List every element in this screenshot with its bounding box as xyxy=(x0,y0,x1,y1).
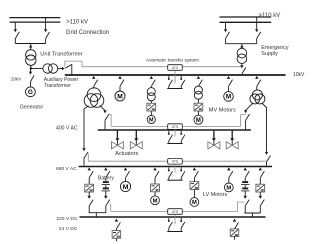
emergency transformer outlet arrow xyxy=(240,64,243,69)
ATS bypass wire left (690V) xyxy=(88,160,167,162)
ATS drop wire 400V xyxy=(174,129,176,136)
label Actuators xyxy=(115,151,138,157)
MV motor M1 xyxy=(115,91,125,101)
svg-text:400 V AC: 400 V AC xyxy=(56,125,78,131)
label Generator xyxy=(20,104,44,110)
switch below battery left xyxy=(104,196,110,213)
svg-text:M: M xyxy=(192,200,197,206)
wire to unit transformer with plug arrow xyxy=(29,44,32,50)
label Automatic transfer system xyxy=(146,57,199,62)
wire U8 stub 24V xyxy=(234,237,236,240)
label Unit Transformer xyxy=(40,51,82,57)
wire aux switch riser to 10kV bus xyxy=(71,64,73,74)
wire T4 right leg down xyxy=(100,106,105,111)
switch LV drive 1 xyxy=(153,167,159,184)
wire unit transformer to node xyxy=(30,65,32,68)
wire T7 left leg down xyxy=(246,103,254,110)
label Battery xyxy=(98,175,114,181)
feeder switch to station transformer xyxy=(92,76,98,89)
feeder switch converter drive 1 xyxy=(150,76,156,88)
svg-text:220 V DC: 220 V DC xyxy=(56,216,78,222)
svg-text:M: M xyxy=(123,184,129,191)
switch LV drive 2 xyxy=(193,167,199,181)
ATS bypass wire left (220V) xyxy=(111,211,168,213)
feeder switch MV motor 1 xyxy=(118,76,124,91)
ATS box 10kV xyxy=(168,65,183,71)
wire bar to 220V bus left xyxy=(95,213,97,217)
grid-connection busbar upper >110kV xyxy=(10,17,61,19)
label 400 V AC xyxy=(56,125,78,131)
wire converter to motor M3 xyxy=(197,111,199,115)
LV converter U5 xyxy=(190,182,199,190)
ATS transfer blades 220V xyxy=(167,218,185,232)
switch DC converter 1 xyxy=(115,219,121,231)
disconnector-switch grid drop 2 xyxy=(44,18,50,44)
svg-text:M: M xyxy=(117,93,123,100)
emergency station transformer T7 three-winding xyxy=(250,90,265,104)
battery B2 xyxy=(241,178,249,196)
svg-text:M: M xyxy=(153,198,158,204)
LV motor M5 xyxy=(120,181,130,191)
ATS tap wire DC left xyxy=(110,204,112,212)
grid-connection busbar lower xyxy=(10,21,61,23)
LV motor M8 xyxy=(224,183,233,192)
label 10kV xyxy=(293,72,305,78)
label LV Motors xyxy=(203,192,227,198)
switch battery right xyxy=(244,167,250,177)
switch below rectifier right xyxy=(259,192,265,213)
feeder switch MV motor 2 xyxy=(227,76,233,92)
drive transformer T6 xyxy=(194,86,202,99)
ATS drop wire 220V xyxy=(174,214,176,224)
LV converter U4 xyxy=(151,184,160,192)
label MV Motors xyxy=(209,107,236,113)
ATS tap wire DC right xyxy=(238,202,245,212)
switch rectifier left xyxy=(88,167,94,184)
label >110 kV (left) xyxy=(66,19,88,25)
switch T7 left leg to 400V bus xyxy=(244,110,250,129)
aux transformer switch xyxy=(58,64,72,70)
switch LV motor 2 xyxy=(227,167,233,183)
battery B1 xyxy=(102,178,110,196)
wire converter to motor M7 xyxy=(193,190,195,198)
switch T4 right leg to 400V bus xyxy=(103,110,109,129)
svg-text:Transformer: Transformer xyxy=(44,83,71,89)
label Grid Connection xyxy=(66,30,109,36)
400V busbar xyxy=(98,129,251,131)
MV drive motor M3 xyxy=(194,115,203,124)
disconnector-switch grid drop 1 xyxy=(14,22,20,43)
LV drive motor M7 xyxy=(190,198,199,207)
ATS bypass wire right (10kV) xyxy=(182,66,241,68)
wire U7 stub 24V xyxy=(115,238,117,241)
svg-text:M: M xyxy=(149,117,154,123)
label Transformer xyxy=(44,83,71,89)
switch below battery right xyxy=(244,196,250,213)
ATS tap wire 400V left xyxy=(109,114,111,126)
ATS tap wire 400V right xyxy=(241,115,246,127)
svg-text:>110 kV: >110 kV xyxy=(259,13,281,19)
wire converter to motor M2 xyxy=(150,111,152,116)
svg-text:G: G xyxy=(28,89,33,96)
svg-text:MV Motors: MV Motors xyxy=(209,107,236,113)
wire converter to motor M6 xyxy=(154,192,156,196)
switch rectifier right xyxy=(259,167,265,184)
svg-text:ATS: ATS xyxy=(172,210,179,214)
10kV busbar xyxy=(65,74,286,76)
frequency converter U2 xyxy=(194,103,203,111)
disconnector-switch emergency drop 2 xyxy=(255,17,261,44)
ATS bypass wire left (10kV) xyxy=(82,66,168,68)
svg-text:Grid Connection: Grid Connection xyxy=(66,30,109,36)
ATS transfer blades 10kV xyxy=(167,76,185,89)
svg-text:20kV: 20kV xyxy=(11,77,21,82)
emergency busbar upper >110kV xyxy=(220,16,272,18)
ATS bypass wire left (400V) xyxy=(111,125,168,127)
auxiliary power transformer T2 xyxy=(43,64,58,73)
svg-text:Unit Transformer: Unit Transformer xyxy=(40,51,82,57)
rectifier U3 xyxy=(85,184,94,192)
wire DC join bar left xyxy=(89,212,106,214)
ATS bypass wire right (690V) xyxy=(182,160,266,162)
ATS drop wire 10kV xyxy=(174,70,176,83)
MV drive motor M2 xyxy=(147,115,155,123)
690V busbar xyxy=(79,166,272,168)
ATS transfer blades 690V xyxy=(167,167,185,180)
actuator valve V3 xyxy=(208,131,220,149)
svg-text:ATS: ATS xyxy=(172,125,179,129)
ATS tap wire 690V left xyxy=(87,154,89,162)
ATS box 690V xyxy=(168,159,183,165)
label >110 kV (right) xyxy=(259,13,281,19)
label 220 V DC xyxy=(56,216,78,222)
generator G1 xyxy=(26,87,36,97)
svg-text:ATS: ATS xyxy=(172,160,179,164)
disconnector-switch emergency drop 1 xyxy=(224,22,230,43)
DC/DC converter U8 xyxy=(230,229,239,237)
station transformer T4 three-winding xyxy=(84,88,104,108)
unit transformer T1 xyxy=(26,50,36,66)
feeder switch converter drive 2 xyxy=(197,76,203,87)
ATS transfer blades 400V xyxy=(167,131,185,144)
wire to emergency transformer with plug arrow xyxy=(240,44,243,49)
emergency switch blade to 10kV bus xyxy=(242,67,246,75)
label Auxiliary Power xyxy=(44,77,79,83)
emergency supply transformer T3 xyxy=(237,48,247,63)
wire join grid drops xyxy=(15,43,45,45)
rectifier U6 xyxy=(256,184,265,192)
emergency busbar lower xyxy=(220,21,272,23)
220V busbar xyxy=(80,216,266,218)
generator breaker xyxy=(29,69,34,87)
frequency converter U1 xyxy=(147,103,156,111)
actuator valve V1 xyxy=(111,131,123,149)
actuator valve V4 xyxy=(226,131,238,149)
switch T7 right leg to 690V bus xyxy=(265,152,271,166)
ATS box 220V xyxy=(168,209,183,215)
switch below rectifier left xyxy=(88,192,94,213)
svg-text:M: M xyxy=(226,94,231,101)
LV drive motor M6 xyxy=(151,196,160,205)
svg-text:ATS: ATS xyxy=(172,66,179,70)
wire ATS tap step (left) xyxy=(65,61,82,67)
label Emergency xyxy=(261,45,289,51)
actuator valve V2 xyxy=(130,131,142,149)
switch T4 left leg to 690V bus xyxy=(82,148,88,166)
switch LV motor 1 xyxy=(124,167,130,181)
feeder switch emergency station transformer xyxy=(255,76,261,90)
label Supply xyxy=(261,51,278,57)
svg-text:Automatic transfer system: Automatic transfer system xyxy=(146,57,199,62)
ATS bypass wire right (400V) xyxy=(182,125,240,127)
MV motor M4 xyxy=(224,92,234,102)
label 690 V AC xyxy=(56,166,77,172)
wire node to aux transformer xyxy=(31,68,43,70)
svg-text:10kV: 10kV xyxy=(293,72,305,78)
wire join emergency drops xyxy=(226,43,257,45)
label 24 V DC xyxy=(59,226,78,232)
switch DC converter 2 xyxy=(233,219,239,229)
wire DC join bar right xyxy=(244,212,260,214)
wire T6 to converter xyxy=(197,99,199,103)
svg-text:M: M xyxy=(226,185,231,191)
wire T4 left leg down xyxy=(84,106,89,149)
wire bar to 220V bus right xyxy=(252,213,254,217)
svg-text:Generator: Generator xyxy=(20,104,44,110)
DC/DC converter U7 xyxy=(112,231,121,239)
switch battery left xyxy=(104,167,110,177)
node junction 20kV xyxy=(30,67,32,69)
drive transformer T5 xyxy=(147,88,155,101)
ATS bypass wire right (220V) xyxy=(182,211,237,213)
svg-text:Supply: Supply xyxy=(261,51,278,57)
wire T7 right leg down xyxy=(262,103,267,152)
ATS drop wire 690V xyxy=(174,164,176,172)
svg-text:LV Motors: LV Motors xyxy=(203,192,227,198)
label 20kV xyxy=(11,77,21,82)
svg-text:>110 kV: >110 kV xyxy=(66,19,88,25)
ATS box 400V xyxy=(168,124,183,130)
wire T5 to converter xyxy=(150,100,152,103)
svg-text:Actuators: Actuators xyxy=(115,151,138,157)
svg-text:Emergency: Emergency xyxy=(261,45,289,51)
svg-text:24 V DC: 24 V DC xyxy=(59,226,78,232)
svg-text:M: M xyxy=(196,118,201,124)
svg-text:690 V AC: 690 V AC xyxy=(56,166,77,172)
